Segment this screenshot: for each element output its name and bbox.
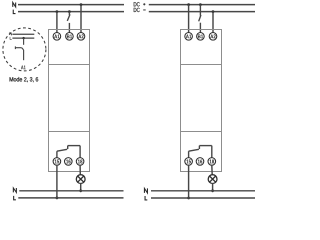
wire terminal 15 to bottom L bus (left) bbox=[56, 165, 58, 198]
terminal A2 (right) bbox=[209, 33, 217, 41]
label L top-left bbox=[13, 10, 15, 14]
wire lamp to bottom N bus (left) bbox=[80, 183, 82, 191]
relay changeover contact 15-16-18 (left) bbox=[57, 146, 80, 158]
wire N bottom-right bus bbox=[151, 190, 255, 192]
detail wire L inside circle bbox=[12, 37, 34, 39]
pushbutton S1 in B1 wire bbox=[67, 12, 70, 33]
relay changeover contact 15-16-18 (right) bbox=[189, 146, 212, 158]
wire lamp to bottom N bus (right) bbox=[212, 183, 214, 191]
lamp E2 (right) bbox=[208, 175, 217, 184]
detail wire N inside circle bbox=[12, 33, 34, 35]
wire drop L to terminal A1 bbox=[56, 12, 58, 33]
wire terminal 15 to bottom L bus (right) bbox=[188, 165, 190, 198]
node junction lamp wire on N bus (left) bbox=[79, 189, 82, 192]
terminal A1 (right) bbox=[185, 33, 193, 41]
node junction 15 wire on L bus (left) bbox=[56, 197, 59, 200]
label N top-left bbox=[13, 3, 16, 7]
label DC + bbox=[134, 2, 140, 6]
label Mode 2, 3, 6 bbox=[10, 77, 39, 82]
wire drop DC- to terminal A2 (right) bbox=[212, 12, 214, 33]
node junction DC- to A2 bbox=[212, 10, 215, 13]
terminal 15 (right) bbox=[185, 158, 193, 166]
node junction L to B1 bbox=[68, 10, 71, 13]
device K2 box (right) bbox=[181, 30, 222, 172]
detail label L inside circle bbox=[10, 37, 12, 39]
node junction N to A2 bbox=[80, 3, 83, 6]
detail pushbutton S1 bbox=[15, 38, 23, 60]
wire N bottom-left bus bbox=[19, 190, 123, 192]
node junction DC+ to A1 bbox=[187, 3, 190, 6]
terminal A2 (left) bbox=[77, 33, 85, 41]
terminal 15 (left) bbox=[53, 158, 61, 166]
label N bottom-left bbox=[13, 188, 16, 192]
dashed circle pushbutton detail bbox=[3, 28, 46, 71]
node junction lamp wire on N bus (right) bbox=[211, 189, 214, 192]
wire DC+ bus bbox=[149, 4, 255, 6]
label DC - bbox=[134, 8, 140, 12]
wire DC- bus bbox=[149, 11, 255, 13]
terminal 16 (left) bbox=[65, 158, 73, 166]
wire terminal 18 to lamp (left) bbox=[79, 165, 81, 175]
detail label A1 bbox=[21, 66, 26, 70]
detail node junction on L bbox=[22, 37, 24, 39]
node junction L to A1 bbox=[56, 10, 59, 13]
terminal B1 (right) bbox=[197, 33, 205, 41]
wire drop N to terminal A2 bbox=[80, 5, 82, 33]
wire terminal 18 to lamp (right) bbox=[211, 165, 213, 175]
node junction DC+ to B1 bbox=[199, 3, 202, 6]
label L bottom-left bbox=[14, 196, 16, 200]
terminal A1 (left) bbox=[53, 33, 61, 41]
pushbutton S2 in B1 wire (right) bbox=[199, 5, 201, 33]
detail label N inside circle bbox=[10, 33, 12, 35]
wire L bottom-left bus bbox=[18, 197, 123, 199]
node junction 15 wire on L bus (right) bbox=[187, 197, 190, 200]
device K1 box (left) bbox=[49, 30, 90, 172]
lamp E1 (left) bbox=[76, 175, 85, 184]
terminal 18 (left) bbox=[76, 158, 84, 166]
wire L bottom-right bus bbox=[151, 197, 255, 199]
wire L top-left bus bbox=[18, 11, 124, 13]
wire N top-left bus bbox=[18, 4, 124, 6]
terminal B1 (left) bbox=[66, 33, 74, 41]
terminal 18 (right) bbox=[208, 158, 216, 166]
label L bottom-right bbox=[145, 196, 147, 200]
wire drop DC+ to terminal A1 (right) bbox=[188, 5, 190, 33]
terminal 16 (right) bbox=[196, 158, 204, 166]
label N bottom-right bbox=[144, 188, 147, 193]
